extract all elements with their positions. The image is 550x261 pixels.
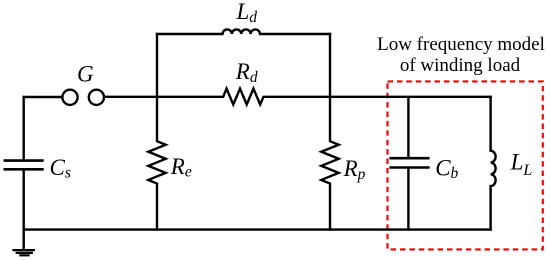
svg-text:G: G [77,61,94,86]
svg-text:Low frequency model: Low frequency model [377,34,545,55]
svg-text:of winding load: of winding load [400,55,521,76]
